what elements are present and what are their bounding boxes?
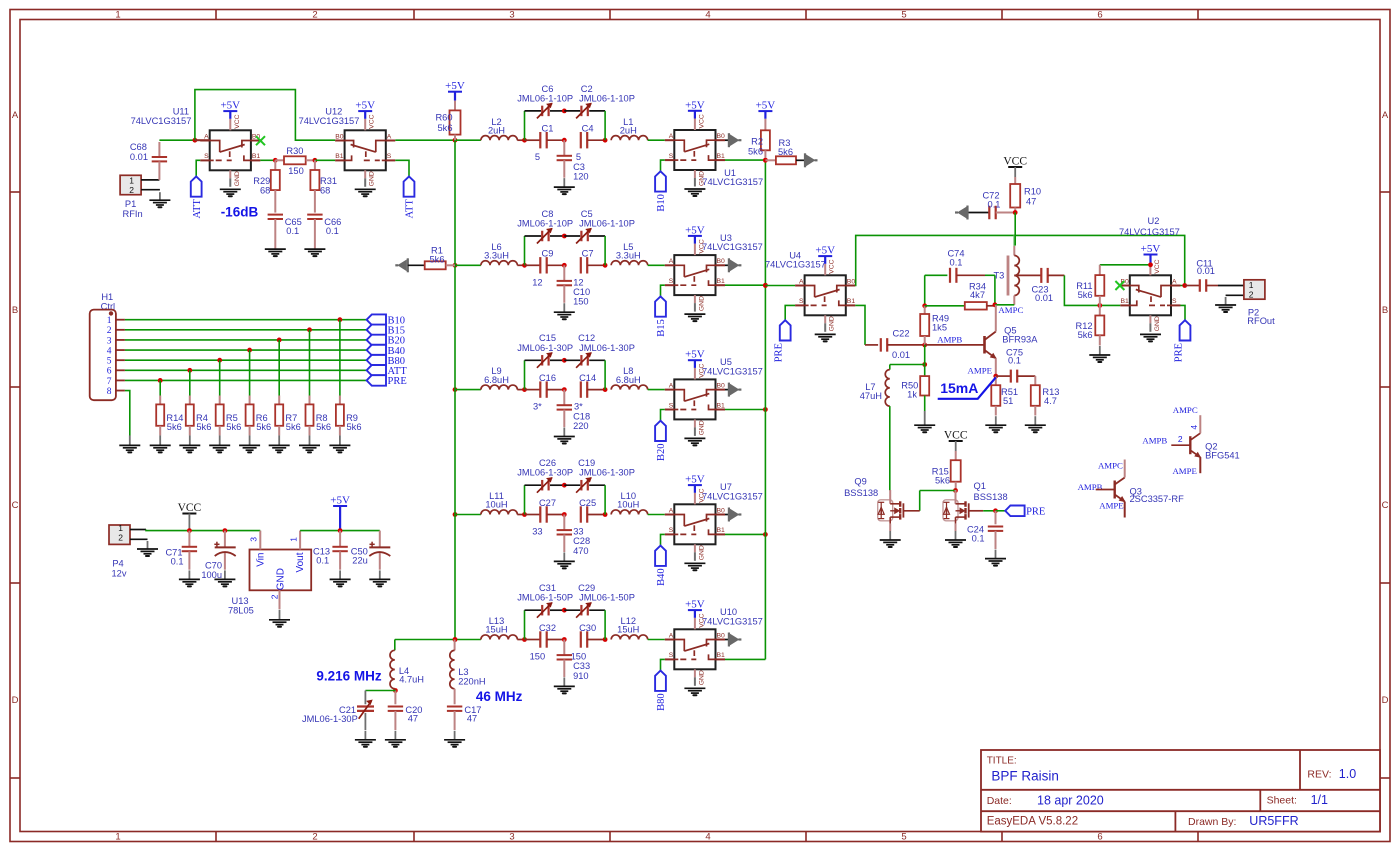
- junction: [1182, 283, 1187, 288]
- wire: [1180, 305, 1185, 320]
- svg-text:S: S: [1172, 298, 1177, 305]
- junction: [1013, 210, 1018, 215]
- wire: [517, 514, 524, 516]
- wire: [661, 285, 665, 296]
- wire: [159, 380, 161, 395]
- svg-text:3*: 3*: [574, 402, 583, 412]
- svg-text:0.1: 0.1: [316, 555, 329, 565]
- connector P1 RFIn: [120, 175, 160, 219]
- svg-text:GND: GND: [829, 316, 836, 331]
- wire: [125, 319, 367, 321]
- power VCC: [944, 430, 968, 442]
- svg-text:46 MHz: 46 MHz: [476, 689, 523, 704]
- ground: [265, 249, 286, 256]
- no-connect U2 B0: [1115, 281, 1124, 290]
- svg-text:JML06-1-50P: JML06-1-50P: [579, 593, 635, 603]
- wire: [648, 139, 665, 141]
- capacitor C66 0.1: [307, 215, 341, 250]
- junction: [953, 488, 958, 493]
- svg-text:AMPB: AMPB: [937, 334, 962, 344]
- wire: [339, 320, 341, 396]
- trimmer capacitor C15 JML06-1-30P: [517, 333, 573, 368]
- junction: [338, 317, 343, 322]
- inductor L2 2uH: [481, 117, 517, 140]
- wire: [924, 275, 926, 306]
- svg-text:74LVC1G3157: 74LVC1G3157: [702, 242, 763, 252]
- IC U4 74LVC1G3157: [765, 250, 855, 332]
- inductor L10 10uH: [611, 491, 647, 514]
- svg-text:C6: C6: [542, 84, 554, 94]
- connector P4 12v: [109, 523, 148, 579]
- svg-text:VCC: VCC: [698, 114, 705, 128]
- svg-text:D: D: [12, 695, 19, 706]
- junction node: [562, 637, 567, 642]
- svg-text:4: 4: [107, 346, 112, 356]
- svg-text:A: A: [669, 382, 674, 389]
- wire: [125, 339, 367, 341]
- net flag B40: [367, 345, 405, 357]
- IC U2 74LVC1G3157: [1119, 216, 1181, 332]
- ground: [985, 416, 1006, 432]
- svg-text:C7: C7: [582, 249, 594, 259]
- svg-text:1k: 1k: [907, 390, 917, 400]
- inductor L9 6.8uH: [481, 366, 517, 389]
- wire: [661, 659, 665, 670]
- svg-text:+5V: +5V: [355, 100, 375, 112]
- resistor R51 51: [991, 376, 1018, 415]
- svg-text:0.1: 0.1: [326, 226, 339, 236]
- svg-text:R10: R10: [1024, 187, 1041, 197]
- svg-text:+5V: +5V: [685, 599, 705, 611]
- net flag B80: [367, 355, 405, 367]
- junction: [187, 528, 192, 533]
- capacitor C16 3*: [525, 373, 565, 412]
- junction: [1097, 303, 1102, 308]
- svg-text:5: 5: [576, 152, 581, 162]
- svg-text:0.01: 0.01: [1197, 266, 1215, 276]
- svg-text:VCC: VCC: [829, 259, 836, 273]
- ground U2 GND: [1140, 334, 1161, 341]
- power +5V: [685, 474, 705, 486]
- svg-text:C3: C3: [573, 162, 585, 172]
- svg-text:0.1: 0.1: [988, 199, 1001, 209]
- resistor R31 68: [310, 160, 337, 212]
- svg-text:BPF Raisin: BPF Raisin: [991, 769, 1059, 784]
- wire: [661, 410, 665, 421]
- inductor L7 47uH: [860, 365, 890, 407]
- junction: [453, 637, 458, 642]
- svg-text:T3: T3: [993, 270, 1004, 280]
- wire: [604, 610, 606, 639]
- svg-text:JML06-1-30P: JML06-1-30P: [517, 343, 573, 353]
- svg-text:JML06-1-10P: JML06-1-10P: [517, 93, 573, 103]
- ground: [1215, 297, 1236, 312]
- svg-text:1.0: 1.0: [1339, 767, 1356, 781]
- wire: [395, 139, 455, 141]
- svg-text:AMPC: AMPC: [998, 305, 1023, 315]
- power VCC: [1003, 156, 1027, 168]
- svg-text:1: 1: [107, 316, 112, 326]
- svg-text:B1: B1: [717, 153, 726, 160]
- wire: [125, 379, 367, 381]
- svg-text:5k6: 5k6: [438, 123, 453, 133]
- svg-text:AMPC: AMPC: [1173, 405, 1198, 415]
- svg-text:C2: C2: [581, 84, 593, 94]
- svg-text:2: 2: [270, 594, 280, 599]
- no-connect arrow U7 B0: [725, 508, 741, 522]
- svg-text:150: 150: [530, 652, 546, 662]
- svg-text:2: 2: [129, 185, 134, 195]
- IC U1 74LVC1G3157: [665, 114, 763, 187]
- svg-text:0.1: 0.1: [972, 534, 985, 544]
- wire: [1014, 213, 1016, 246]
- svg-text:A: A: [387, 133, 392, 140]
- svg-text:S: S: [669, 527, 674, 534]
- wire: [455, 514, 481, 516]
- resistor R8 5k6: [306, 396, 332, 436]
- svg-text:B1: B1: [847, 298, 856, 305]
- svg-text:5k6: 5k6: [316, 422, 331, 432]
- no-connect arrow: [955, 206, 968, 220]
- svg-text:68: 68: [260, 185, 270, 195]
- wire: [994, 275, 996, 305]
- net flag B10: [367, 314, 405, 326]
- svg-text:JML06-1-30P: JML06-1-30P: [579, 343, 635, 353]
- capacitor C22 0.01: [865, 328, 925, 360]
- svg-text:PRE: PRE: [1026, 507, 1045, 518]
- ground: [554, 677, 575, 693]
- wire: [196, 160, 200, 176]
- svg-text:S: S: [387, 153, 392, 160]
- svg-text:A: A: [669, 632, 674, 639]
- svg-text:VCC: VCC: [698, 613, 705, 627]
- svg-text:2: 2: [1249, 290, 1254, 300]
- svg-text:C14: C14: [579, 373, 596, 383]
- svg-text:R60: R60: [435, 113, 452, 123]
- svg-text:18 apr 2020: 18 apr 2020: [1037, 794, 1104, 808]
- no-connect arrow U10 B0: [725, 633, 741, 647]
- svg-text:74LVC1G3157: 74LVC1G3157: [702, 177, 763, 187]
- svg-text:2SC3357-RF: 2SC3357-RF: [1130, 494, 1185, 504]
- ground: [269, 435, 290, 452]
- svg-text:5k6: 5k6: [1078, 290, 1093, 300]
- capacitor C70 100u polarized: [201, 531, 235, 580]
- wire: [525, 609, 542, 611]
- svg-text:1: 1: [118, 523, 123, 533]
- svg-text:0.01: 0.01: [1035, 293, 1053, 303]
- resistor R34 4k7: [925, 281, 995, 309]
- svg-text:4: 4: [1189, 425, 1199, 430]
- connector P2 RFOut: [1218, 280, 1275, 326]
- svg-text:AMPB: AMPB: [1142, 436, 1167, 446]
- trimmer capacitor C19 JML06-1-30P: [576, 458, 635, 493]
- svg-text:1: 1: [1249, 280, 1254, 290]
- svg-text:C15: C15: [539, 333, 556, 343]
- svg-text:JML06-1-10P: JML06-1-10P: [517, 219, 573, 229]
- capacitor C1 5: [525, 124, 565, 163]
- trimmer capacitor C8 JML06-1-10P: [517, 209, 573, 244]
- junction: [193, 138, 198, 143]
- svg-text:6: 6: [107, 367, 112, 377]
- junction: [562, 608, 567, 613]
- svg-text:12v: 12v: [112, 569, 127, 579]
- svg-text:TITLE:: TITLE:: [987, 756, 1017, 767]
- junction: [562, 483, 567, 488]
- svg-text:C26: C26: [539, 458, 556, 468]
- svg-text:JML06-1-30P: JML06-1-30P: [302, 714, 358, 724]
- wire: [604, 485, 606, 514]
- junction node: [603, 387, 608, 392]
- resistor R3 5k6: [765, 138, 805, 164]
- junction: [763, 532, 768, 537]
- capacitor C25 33: [573, 498, 605, 537]
- net flag B15: [367, 325, 405, 337]
- svg-text:REV:: REV:: [1307, 769, 1331, 781]
- junction node: [562, 138, 567, 143]
- junction: [763, 158, 768, 163]
- svg-text:B0: B0: [717, 632, 726, 639]
- svg-text:GND: GND: [698, 545, 705, 560]
- wire: [159, 139, 195, 141]
- svg-text:B0: B0: [847, 278, 856, 285]
- junction: [217, 358, 222, 363]
- svg-text:+5V: +5V: [756, 100, 776, 112]
- svg-text:B20: B20: [656, 444, 667, 462]
- resistor R10 47: [1010, 167, 1041, 213]
- svg-text:74LVC1G3157: 74LVC1G3157: [131, 116, 192, 126]
- wire: [188, 514, 190, 531]
- svg-text:1k5: 1k5: [932, 322, 947, 332]
- ground U1 GND: [684, 189, 705, 196]
- svg-text:L3: L3: [458, 667, 468, 677]
- svg-text:150: 150: [288, 166, 304, 176]
- svg-text:2uH: 2uH: [620, 125, 637, 135]
- ground: [149, 192, 170, 207]
- svg-text:10uH: 10uH: [617, 500, 639, 510]
- wire: [517, 264, 524, 266]
- resistor R14 5k6: [156, 396, 183, 436]
- wire: [394, 689, 396, 691]
- svg-text:+5V: +5V: [330, 495, 350, 507]
- svg-text:1: 1: [289, 537, 299, 542]
- svg-text:5k6: 5k6: [748, 146, 763, 156]
- svg-text:4k7: 4k7: [970, 290, 985, 300]
- svg-text:74LVC1G3157: 74LVC1G3157: [1119, 227, 1180, 237]
- svg-text:Vout: Vout: [295, 552, 306, 572]
- svg-text:3.3uH: 3.3uH: [616, 251, 641, 261]
- junction: [307, 327, 312, 332]
- capacitor C30 150: [571, 623, 605, 662]
- wire: [855, 305, 865, 345]
- svg-text:B15: B15: [656, 319, 667, 337]
- resistor R5 5k6: [216, 396, 242, 436]
- wire: [125, 329, 367, 331]
- svg-text:C8: C8: [542, 209, 554, 219]
- svg-text:VCC: VCC: [1154, 259, 1161, 273]
- capacitor C20 47: [388, 691, 423, 731]
- wire: [920, 490, 956, 492]
- svg-text:12: 12: [573, 277, 583, 287]
- junction: [763, 407, 768, 412]
- svg-text:910: 910: [573, 671, 589, 681]
- svg-text:VCC: VCC: [234, 114, 241, 128]
- junction: [1148, 262, 1153, 267]
- ground: [299, 435, 320, 452]
- svg-text:BSS138: BSS138: [974, 492, 1008, 502]
- resistor R4 5k6: [186, 396, 212, 436]
- wire: [855, 235, 1184, 285]
- svg-text:47: 47: [408, 714, 418, 724]
- svg-text:VCC: VCC: [1003, 156, 1027, 168]
- wire: [455, 264, 481, 266]
- svg-text:6.8uH: 6.8uH: [484, 375, 509, 385]
- wire: [517, 389, 524, 391]
- junction node: [562, 387, 567, 392]
- svg-text:VCC: VCC: [698, 363, 705, 377]
- svg-text:D: D: [1382, 695, 1389, 706]
- svg-text:A: A: [799, 278, 804, 285]
- net flag B20: [655, 421, 667, 461]
- wire: [454, 140, 456, 639]
- wire: [524, 610, 526, 639]
- svg-text:B1: B1: [717, 527, 726, 534]
- svg-text:2: 2: [107, 326, 112, 336]
- wire: [604, 236, 606, 265]
- junction: [453, 637, 458, 642]
- wire: [195, 90, 335, 141]
- junction node: [603, 263, 608, 268]
- svg-text:S: S: [669, 402, 674, 409]
- ground: [945, 531, 966, 547]
- svg-text:UR5FFR: UR5FFR: [1249, 814, 1298, 828]
- ground: [554, 428, 575, 444]
- svg-text:78L05: 78L05: [228, 606, 254, 616]
- svg-text:220: 220: [573, 421, 589, 431]
- svg-text:AMPE: AMPE: [968, 366, 992, 376]
- IC U5 74LVC1G3157: [665, 357, 763, 436]
- svg-text:2: 2: [1178, 434, 1183, 444]
- ground: [179, 570, 200, 586]
- svg-text:4.7: 4.7: [1044, 396, 1057, 406]
- trimmer capacitor C31 JML06-1-50P: [517, 583, 573, 618]
- svg-text:2: 2: [312, 10, 317, 21]
- wire: [983, 510, 995, 512]
- ground: [137, 541, 158, 556]
- svg-text:PRE: PRE: [1174, 343, 1185, 362]
- svg-text:C12: C12: [578, 333, 595, 343]
- svg-text:5k6: 5k6: [256, 422, 271, 432]
- svg-text:GND: GND: [369, 171, 376, 186]
- svg-text:VCC: VCC: [698, 239, 705, 253]
- ground: [239, 435, 260, 452]
- capacitor C75 0.1: [996, 347, 1036, 382]
- transformer T3: [993, 235, 1019, 304]
- junction: [453, 263, 458, 268]
- junction: [922, 362, 927, 367]
- svg-text:3.3uH: 3.3uH: [484, 251, 509, 261]
- capacitor C28 470: [557, 515, 591, 556]
- svg-text:C22: C22: [892, 328, 909, 338]
- wire: [195, 139, 210, 141]
- svg-text:GND: GND: [234, 171, 241, 186]
- wire: [564, 609, 580, 611]
- ground U12 GND: [355, 189, 376, 196]
- net flag B10: [655, 171, 667, 211]
- svg-text:C27: C27: [539, 498, 556, 508]
- svg-text:5k6: 5k6: [430, 254, 445, 264]
- svg-text:3: 3: [509, 832, 514, 843]
- IC U7 74LVC1G3157: [665, 482, 763, 561]
- ground: [1089, 346, 1110, 362]
- svg-text:150: 150: [573, 297, 589, 307]
- capacitor C50 22u polarized: [351, 531, 391, 570]
- svg-text:3: 3: [509, 10, 514, 21]
- no-connect arrow: [805, 153, 818, 167]
- resistor R1 5k6: [425, 246, 455, 270]
- capacitor C27 33: [525, 498, 565, 537]
- svg-text:B10: B10: [656, 194, 667, 212]
- capacitor C65 0.1: [268, 215, 302, 250]
- svg-text:5: 5: [901, 10, 906, 21]
- wire: [309, 330, 311, 396]
- wire: [924, 345, 926, 365]
- svg-text:2uH: 2uH: [488, 125, 505, 135]
- junction: [223, 528, 228, 533]
- wire: [517, 139, 524, 141]
- capacitor C13 0.1: [313, 531, 348, 570]
- resistor R29 68: [253, 160, 280, 212]
- wire: [339, 506, 341, 531]
- ground: [554, 178, 575, 194]
- junction: [187, 368, 192, 373]
- svg-text:6: 6: [1097, 10, 1102, 21]
- wire: [455, 139, 481, 141]
- svg-text:100u: 100u: [201, 570, 222, 580]
- wire: [525, 359, 542, 361]
- svg-text:10uH: 10uH: [485, 500, 507, 510]
- svg-text:BSS138: BSS138: [844, 488, 878, 498]
- resistor R12 5k6: [1076, 305, 1105, 345]
- svg-text:6: 6: [1097, 832, 1102, 843]
- svg-text:C31: C31: [539, 583, 556, 593]
- junction: [922, 343, 927, 348]
- IC U3 74LVC1G3157: [665, 233, 763, 312]
- junction node: [603, 138, 608, 143]
- transistor Q5 BFR93A: [925, 305, 1039, 376]
- svg-text:C10: C10: [573, 287, 590, 297]
- IC U10 74LVC1G3157: [665, 607, 763, 686]
- wire: [525, 484, 542, 486]
- trimmer capacitor C21 JML06-1-30P: [302, 691, 374, 731]
- wire: [564, 484, 580, 486]
- svg-text:A: A: [12, 110, 19, 121]
- svg-text:B1: B1: [717, 652, 726, 659]
- svg-text:1/1: 1/1: [1311, 793, 1328, 807]
- resistor R13 4.7: [1031, 376, 1060, 415]
- wire: [694, 111, 696, 119]
- svg-text:5k6: 5k6: [1078, 330, 1093, 340]
- wire: [1149, 255, 1151, 265]
- svg-text:C18: C18: [573, 411, 590, 421]
- svg-text:5k6: 5k6: [778, 147, 793, 157]
- power +5V: [685, 99, 705, 111]
- ground: [385, 731, 406, 747]
- svg-text:68: 68: [320, 185, 330, 195]
- net flag B40: [655, 546, 667, 586]
- wire: [889, 524, 891, 531]
- svg-text:Q9: Q9: [854, 476, 866, 486]
- capacitor C33 910: [557, 640, 591, 681]
